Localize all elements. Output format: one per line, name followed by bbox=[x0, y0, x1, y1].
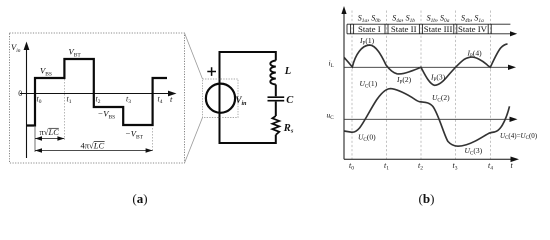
svg-text:S1b, S0a: S1b, S0a bbox=[427, 14, 450, 25]
t axis bottom bbox=[344, 158, 511, 160]
state row dividers bbox=[347, 24, 491, 34]
dashed gridline t0 bbox=[351, 11, 353, 160]
capacitor C plates bbox=[268, 96, 285, 98]
dashed gridline t3 bbox=[455, 11, 457, 160]
state row top line bbox=[347, 23, 510, 25]
resistor Rs zigzag bbox=[272, 116, 279, 135]
svg-text:t4: t4 bbox=[488, 161, 493, 172]
svg-text:State II: State II bbox=[391, 24, 417, 34]
uC axis bbox=[344, 118, 510, 120]
svg-text:t2: t2 bbox=[418, 161, 423, 172]
svg-text:−VBS: −VBS bbox=[98, 109, 116, 121]
vertical axis of panel b bbox=[343, 12, 345, 159]
svg-text:0: 0 bbox=[18, 89, 22, 98]
svg-text:Vin: Vin bbox=[11, 42, 21, 54]
dotted magnifier box around source bbox=[203, 79, 239, 118]
4 pi sqrt LC dimension arrow bbox=[35, 150, 153, 152]
svg-text:t2: t2 bbox=[96, 95, 101, 106]
svg-text:State III: State III bbox=[424, 24, 453, 34]
svg-text:IP(1): IP(1) bbox=[359, 36, 375, 47]
Vin square waveform bbox=[27, 59, 167, 126]
svg-text:L: L bbox=[284, 66, 291, 77]
iL axis bbox=[344, 66, 509, 68]
dotted gridline at t1 bbox=[63, 79, 65, 140]
svg-text:UC(1): UC(1) bbox=[360, 79, 378, 90]
svg-text:t: t bbox=[170, 94, 173, 104]
svg-text:(b): (b) bbox=[419, 191, 435, 206]
svg-text:S1a, S0b: S1a, S0b bbox=[358, 14, 381, 25]
svg-text:t4: t4 bbox=[158, 95, 163, 106]
svg-text:iL: iL bbox=[329, 59, 334, 70]
svg-text:t1: t1 bbox=[67, 95, 72, 106]
pi sqrt LC dimension arrow bbox=[35, 138, 64, 140]
dashed gridline t2 bbox=[420, 11, 422, 160]
svg-text:Vin: Vin bbox=[236, 95, 248, 107]
svg-text:IP(4): IP(4) bbox=[467, 49, 483, 60]
svg-text:IP(2): IP(2) bbox=[396, 75, 412, 86]
svg-text:UC(3): UC(3) bbox=[465, 146, 483, 157]
wire through source bbox=[219, 84, 221, 114]
zoom connector line bottom bbox=[185, 118, 203, 164]
svg-text:VBS: VBS bbox=[40, 66, 52, 78]
uC waveform bbox=[344, 89, 510, 147]
iL waveform bbox=[344, 44, 508, 85]
tick line at t0 for arrows bbox=[34, 127, 36, 152]
svg-text:Rs: Rs bbox=[283, 123, 294, 135]
svg-text:t0: t0 bbox=[37, 95, 42, 106]
voltage source V circle bbox=[206, 84, 235, 113]
t axis (horizontal) bbox=[20, 93, 169, 95]
dashed gridline t4 bbox=[489, 11, 491, 160]
svg-text:S4a, S1b: S4a, S1b bbox=[392, 14, 415, 25]
svg-text:t0: t0 bbox=[349, 161, 354, 172]
svg-text:π√LC: π√LC bbox=[40, 127, 60, 137]
svg-text:−VBT: −VBT bbox=[125, 129, 144, 141]
svg-text:t: t bbox=[511, 161, 514, 170]
svg-text:S4b, S1a: S4b, S1a bbox=[461, 14, 484, 25]
svg-text:IP(3): IP(3) bbox=[430, 73, 446, 84]
svg-text:C: C bbox=[286, 95, 294, 106]
svg-text:4π√LC: 4π√LC bbox=[81, 140, 105, 150]
zoom connector line top bbox=[185, 33, 203, 79]
dashed gridline t1 bbox=[385, 11, 387, 160]
svg-text:UC(2): UC(2) bbox=[432, 93, 450, 104]
svg-text:uC: uC bbox=[327, 111, 335, 122]
wire loop bbox=[220, 52, 276, 143]
svg-text:UC(4)=UC(0): UC(4)=UC(0) bbox=[500, 132, 538, 141]
svg-text:UC(0): UC(0) bbox=[358, 133, 376, 144]
svg-text:State I: State I bbox=[358, 24, 381, 34]
svg-text:(a): (a) bbox=[132, 191, 147, 206]
svg-text:VBT: VBT bbox=[69, 47, 82, 59]
plus sign bbox=[207, 67, 216, 76]
Vin axis (vertical) bbox=[26, 48, 28, 158]
dashed zoom box (panel a border) bbox=[10, 33, 185, 163]
inductor L coil bbox=[270, 61, 275, 85]
state row bottom line with arrow bbox=[347, 33, 511, 35]
svg-text:t1: t1 bbox=[384, 161, 389, 172]
svg-text:t3: t3 bbox=[453, 161, 458, 172]
svg-text:t3: t3 bbox=[126, 95, 131, 106]
dotted tick line at t4 bbox=[152, 128, 154, 152]
svg-text:State IV: State IV bbox=[458, 24, 488, 34]
